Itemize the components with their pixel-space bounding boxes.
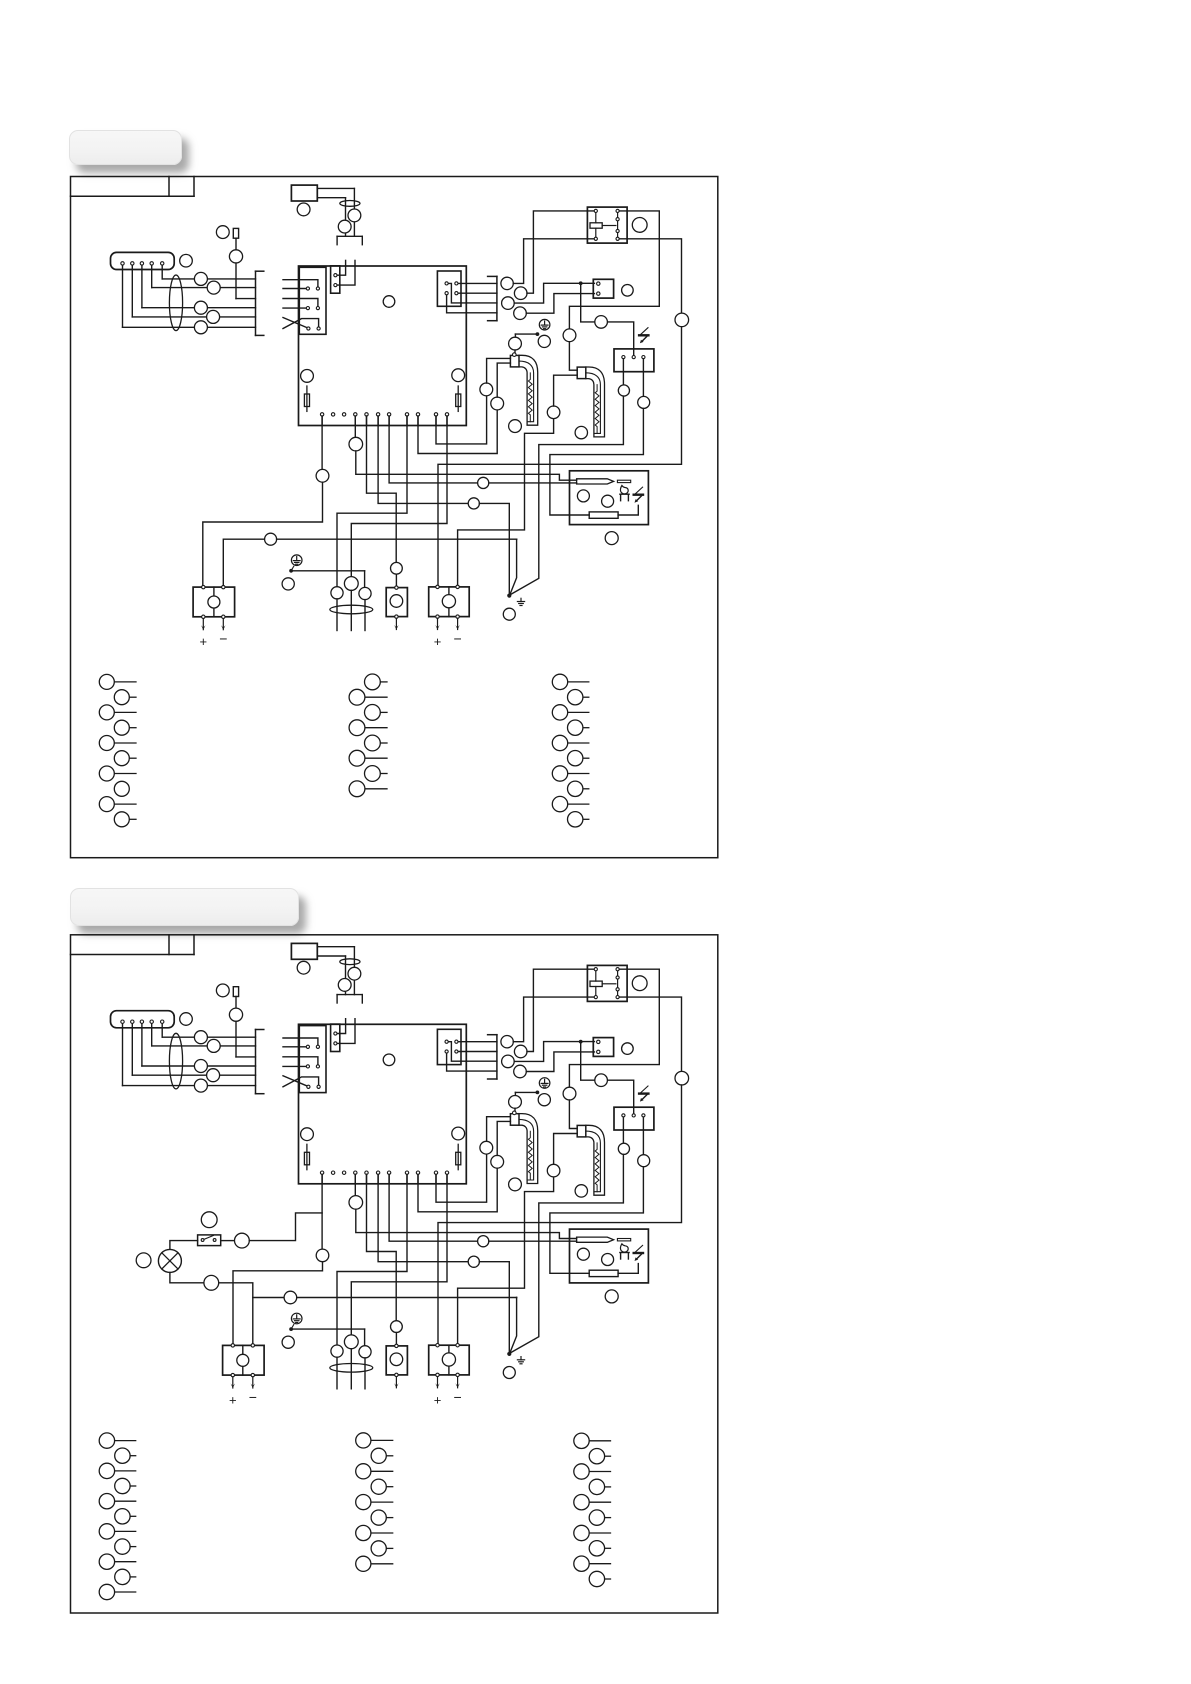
svg-text:+: + xyxy=(434,634,442,649)
svg-text:+: + xyxy=(434,1392,442,1407)
svg-text:−: − xyxy=(454,631,462,647)
svg-text:+: + xyxy=(229,1392,237,1407)
svg-text:−: − xyxy=(249,1389,257,1405)
svg-text:+: + xyxy=(200,634,208,649)
svg-text:−: − xyxy=(219,631,227,647)
svg-text:−: − xyxy=(454,1389,462,1405)
